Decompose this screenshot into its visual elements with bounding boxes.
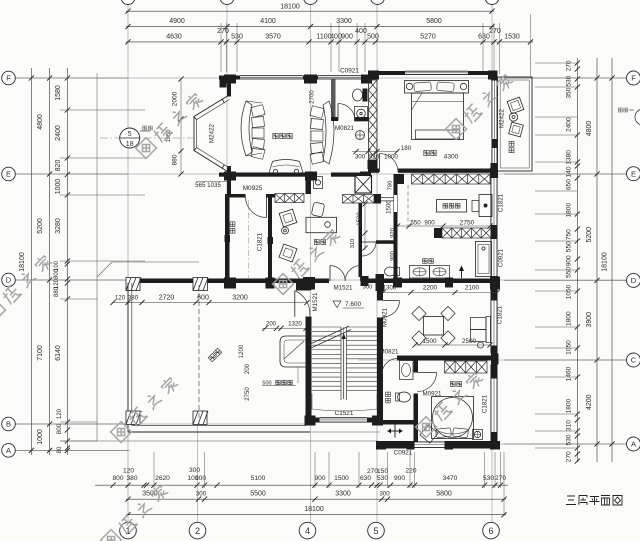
svg-text:530: 530 xyxy=(377,475,388,482)
media sofa right (curved) xyxy=(323,101,334,164)
svg-text:300: 300 xyxy=(363,285,373,291)
column A/6 xyxy=(490,441,500,450)
svg-text:E: E xyxy=(631,169,636,178)
column D/mid-dining xyxy=(445,278,453,288)
svg-text:1800: 1800 xyxy=(566,398,573,413)
label ke wei bath2 xyxy=(386,392,391,397)
bottom dim line row2 xyxy=(126,498,506,500)
svg-text:900: 900 xyxy=(566,255,573,266)
railing note right xyxy=(618,108,622,112)
svg-text:7.600: 7.600 xyxy=(345,301,361,308)
svg-text:C0921: C0921 xyxy=(394,450,413,457)
svg-text:5270: 5270 xyxy=(420,34,436,41)
bedroom2 west wall xyxy=(414,356,419,373)
svg-text:F: F xyxy=(631,74,636,83)
svg-text:900: 900 xyxy=(341,34,353,41)
sink top bath xyxy=(355,107,368,122)
svg-text:800: 800 xyxy=(112,475,123,482)
tatami west wall xyxy=(225,198,230,282)
wall y195 with M0925 door and windows xyxy=(225,194,246,198)
north wall media room + bath xyxy=(219,76,240,80)
svg-text:270: 270 xyxy=(489,28,501,35)
svg-text:80: 80 xyxy=(57,446,63,453)
svg-text:M0921: M0921 xyxy=(423,391,442,398)
svg-text:1500: 1500 xyxy=(334,475,349,482)
top grid bubbles (cut) xyxy=(121,0,135,5)
svg-text:18100: 18100 xyxy=(19,252,26,272)
bedroom2 east window C1821 xyxy=(491,365,498,379)
study ball xyxy=(282,227,289,234)
svg-text:1460: 1460 xyxy=(566,366,573,381)
bath2 basin xyxy=(400,361,414,380)
C0921 window bottom xyxy=(414,442,446,449)
svg-text:M1521: M1521 xyxy=(312,292,319,311)
column stair SW xyxy=(305,416,316,426)
bed2 nightstand xyxy=(473,430,483,440)
svg-text:2750: 2750 xyxy=(245,387,251,401)
svg-text:600: 600 xyxy=(197,295,209,302)
media room south wall xyxy=(219,173,316,177)
svg-text:M0921: M0921 xyxy=(382,307,389,326)
media SW wall stub down xyxy=(227,177,231,194)
svg-text:300: 300 xyxy=(189,467,200,474)
svg-text:1200: 1200 xyxy=(239,344,245,358)
bay window inner line xyxy=(197,100,230,169)
bath south wall with door gap xyxy=(331,117,338,121)
column bedroom1 SW xyxy=(368,160,378,169)
north wall bedroom1 xyxy=(368,71,405,75)
column F/mid xyxy=(304,75,317,84)
svg-text:4630: 4630 xyxy=(166,34,182,41)
left dim line outer 18100 xyxy=(30,68,32,455)
svg-text:1800: 1800 xyxy=(566,311,573,326)
column D/tatamiE xyxy=(266,278,275,289)
svg-text:780: 780 xyxy=(388,181,394,191)
svg-text:1580: 1580 xyxy=(55,85,62,101)
svg-text:200: 200 xyxy=(245,363,251,374)
grid line F horizontal xyxy=(15,77,627,79)
bedroom1 south wall xyxy=(368,169,498,173)
column D/tatamiW xyxy=(224,278,236,289)
railing note at callout xyxy=(143,126,147,130)
svg-text:4300: 4300 xyxy=(444,154,459,161)
bath2 door M0821 leaf+arc xyxy=(381,359,383,376)
svg-text:1800: 1800 xyxy=(566,203,573,218)
bed1 pillows xyxy=(414,82,432,92)
laundry north wall xyxy=(377,420,418,425)
svg-text:550: 550 xyxy=(566,266,573,277)
column A/5 xyxy=(376,441,386,450)
column F/bath xyxy=(361,75,372,84)
svg-text:2700: 2700 xyxy=(310,90,316,104)
small stand in corridor xyxy=(314,177,323,189)
svg-text:300: 300 xyxy=(355,154,366,161)
svg-text:900: 900 xyxy=(424,220,435,227)
stair hall east wall lower xyxy=(377,318,383,422)
grid line 5 vertical xyxy=(376,4,378,522)
column D/door xyxy=(361,276,369,286)
bed1 foot bench xyxy=(416,130,460,139)
closet island xyxy=(437,200,467,213)
grid line 2 vertical (top) xyxy=(226,4,228,196)
stair hall south wall xyxy=(306,418,320,423)
dining chairs (diamonds) xyxy=(412,306,426,320)
stair hall west wall upper stub xyxy=(306,283,312,290)
stair bay lower thin line xyxy=(311,431,380,433)
column bedroom1 NE xyxy=(488,71,498,80)
top extension lines minor xyxy=(220,23,222,72)
hatched column D/2 xyxy=(193,278,208,291)
hatched column D/1 xyxy=(126,278,140,291)
svg-text:880: 880 xyxy=(172,154,179,165)
grid line A horizontal left xyxy=(15,449,130,451)
dining sofa xyxy=(486,317,491,343)
left extension lines horizontal xyxy=(15,77,128,79)
bottom dim line overall 18100 xyxy=(126,514,506,516)
closet dim row xyxy=(398,225,492,227)
media sofa left (curved) xyxy=(241,101,252,156)
svg-text:C0921: C0921 xyxy=(340,68,359,75)
svg-text:300: 300 xyxy=(379,491,390,498)
svg-text:D: D xyxy=(6,276,12,285)
svg-text:2500: 2500 xyxy=(462,338,477,345)
closet west wall xyxy=(394,174,398,283)
dining east window C1821 xyxy=(491,288,498,301)
svg-text:3200: 3200 xyxy=(232,295,248,302)
column closet SW2 xyxy=(434,228,442,238)
svg-text:2000: 2000 xyxy=(172,91,179,106)
double door M1521 right leaf xyxy=(360,266,362,282)
svg-text:2100: 2100 xyxy=(465,285,480,292)
svg-text:4100: 4100 xyxy=(260,18,276,25)
svg-text:D: D xyxy=(631,276,637,285)
bedroom2 label xyxy=(450,382,455,387)
bed1 headboard band xyxy=(405,81,469,94)
svg-text:6140: 6140 xyxy=(55,345,62,361)
svg-text:C1821: C1821 xyxy=(482,394,489,413)
study chair xyxy=(311,202,324,217)
bedroom1 east window xyxy=(492,81,498,140)
bed2 corner diamond pillow xyxy=(420,425,438,443)
bed2 pillows xyxy=(436,428,452,438)
column F/2 xyxy=(224,75,236,84)
svg-text:5500: 5500 xyxy=(250,491,266,498)
svg-text:4: 4 xyxy=(305,526,310,536)
svg-text:C1821: C1821 xyxy=(497,305,504,324)
laundry symbol xyxy=(388,430,403,432)
svg-text:800: 800 xyxy=(56,423,63,434)
east window C0921 mid xyxy=(491,239,498,276)
svg-text:2200: 2200 xyxy=(423,285,438,292)
study top window xband left xyxy=(275,194,304,203)
grid line A horizontal right xyxy=(495,443,627,445)
svg-text:1530: 1530 xyxy=(504,34,520,41)
column bedroom1 NW xyxy=(368,71,379,80)
svg-text:920: 920 xyxy=(369,154,380,161)
svg-text:900: 900 xyxy=(314,475,325,482)
closet bottom xband xyxy=(442,228,491,238)
svg-text:1500: 1500 xyxy=(422,338,437,345)
svg-text:920: 920 xyxy=(390,228,396,238)
svg-text:M0821: M0821 xyxy=(380,349,399,356)
top dim line row3 xyxy=(126,41,533,43)
svg-text:4800: 4800 xyxy=(586,121,593,137)
staircase up arrow xyxy=(343,336,345,399)
svg-text:2400: 2400 xyxy=(55,125,62,141)
column D/5 xyxy=(376,274,385,291)
svg-text:1320: 1320 xyxy=(288,321,302,328)
svg-text:1050: 1050 xyxy=(566,340,573,355)
bed1 lamps xyxy=(406,83,412,89)
bath2 north wall (C line) with M0821 gap xyxy=(377,356,382,361)
grid line 2 vertical (bottom) xyxy=(197,424,199,522)
column A/mid2 xyxy=(445,441,454,450)
svg-text:270: 270 xyxy=(566,60,573,71)
terrace west parapet (double line) xyxy=(127,283,129,432)
bed1 fold corner xyxy=(412,93,423,110)
staircase bottom landing curve xyxy=(312,394,377,412)
bed2 body xyxy=(432,397,474,439)
left dim fine line xyxy=(66,68,68,455)
east wall mid col bottom xyxy=(490,276,498,287)
column C/dining xyxy=(491,346,498,354)
svg-text:300: 300 xyxy=(196,491,207,498)
column closet NW xyxy=(396,174,404,184)
svg-text:750: 750 xyxy=(566,229,573,240)
svg-text:A: A xyxy=(631,440,636,449)
svg-text:18100: 18100 xyxy=(280,3,300,10)
svg-text:2620: 2620 xyxy=(155,475,170,482)
svg-text:630: 630 xyxy=(360,475,371,482)
wall between tatami and study xyxy=(268,198,272,282)
svg-text:270: 270 xyxy=(566,451,573,462)
bath mid basin counter xyxy=(410,266,430,279)
svg-text:150: 150 xyxy=(377,468,388,475)
south wall bath segment xyxy=(331,173,371,177)
bed2 round mattress xyxy=(433,398,473,438)
closet top xband xyxy=(412,174,491,184)
svg-text:5200: 5200 xyxy=(586,227,593,243)
svg-text:18100: 18100 xyxy=(304,506,324,513)
staircase treads right flight xyxy=(347,326,378,328)
C1521 window xyxy=(320,417,368,422)
left outer building extension line xyxy=(96,73,98,277)
svg-text:4900: 4900 xyxy=(169,18,185,25)
watermark 2 xyxy=(446,72,515,139)
stair hall west wall lower xyxy=(306,317,312,422)
hatched column B/2 xyxy=(193,411,207,425)
svg-text:M1521: M1521 xyxy=(334,285,353,292)
east wall mid col middle xyxy=(491,225,498,239)
svg-text:M0925: M0925 xyxy=(243,185,263,192)
closet dashed line xyxy=(407,185,409,227)
svg-text:5: 5 xyxy=(373,526,378,536)
svg-text:C: C xyxy=(631,356,637,365)
watermark 7 xyxy=(416,370,485,437)
column media SW xyxy=(224,172,236,181)
svg-text:530: 530 xyxy=(566,75,573,86)
svg-text:120: 120 xyxy=(57,408,63,419)
callout leader dash-dot line xyxy=(100,137,193,139)
svg-text:5100: 5100 xyxy=(251,475,266,482)
svg-text:C1821: C1821 xyxy=(257,232,264,251)
column bedroom1 SE xyxy=(491,163,498,173)
dining door M0921 leaf+arc xyxy=(383,300,400,302)
column C/6 xyxy=(491,354,499,365)
wc mid north wall xyxy=(376,240,398,244)
watermark 9 (left edge partial) xyxy=(0,253,54,320)
svg-text:270: 270 xyxy=(217,28,229,35)
svg-text:1500: 1500 xyxy=(386,200,393,214)
door M0925 leaf+arc (study from terrace strip) xyxy=(266,197,268,218)
svg-text:120: 120 xyxy=(115,295,126,302)
left dim line col2 xyxy=(49,68,51,455)
column D/6 xyxy=(490,277,500,290)
dining bottom dim row xyxy=(415,344,490,346)
media room west wall lower xyxy=(227,166,231,177)
svg-text:2720: 2720 xyxy=(159,295,175,302)
svg-text:5800: 5800 xyxy=(436,491,452,498)
column tatami/study xyxy=(268,237,274,244)
grid line 6 vertical xyxy=(491,4,493,522)
column study NE xyxy=(374,194,381,204)
label bath2 mid (zhu wei) xyxy=(423,259,428,264)
tatami room label xyxy=(230,222,235,227)
east wall mid col top xyxy=(490,168,498,178)
bottom grid bubbles xyxy=(120,522,137,539)
svg-text:140: 140 xyxy=(566,166,573,177)
watermark 8 xyxy=(273,227,342,294)
toilet top bath xyxy=(353,89,363,101)
bedroom1 door gap in south wall xyxy=(379,168,398,173)
svg-text:2400: 2400 xyxy=(566,117,573,132)
corner mass at terrace door xyxy=(296,283,311,291)
svg-text:B: B xyxy=(6,420,11,429)
svg-text:180: 180 xyxy=(401,145,412,152)
svg-text:880: 880 xyxy=(54,286,60,297)
chimney top-left xyxy=(220,76,227,88)
bedroom2 wardrobe xband xyxy=(445,361,488,373)
svg-text:1380: 1380 xyxy=(566,150,573,165)
balcony outline xyxy=(498,77,533,171)
shower drain symbol xyxy=(356,131,365,140)
balcony door M2422 swing (bedroom1 to balcony) xyxy=(497,103,499,121)
watermark 5 xyxy=(111,375,180,442)
bath partition wall (gray) xyxy=(331,80,336,121)
column tatami W xyxy=(225,235,231,242)
svg-text:2750: 2750 xyxy=(460,220,475,227)
top dim line row2 xyxy=(126,26,494,28)
svg-text:565 1035: 565 1035 xyxy=(195,182,221,189)
svg-text:18100: 18100 xyxy=(602,252,609,272)
dressing stool xyxy=(472,201,479,212)
svg-text:A: A xyxy=(6,446,11,455)
title: san ceng ping mian tu xyxy=(566,496,622,506)
svg-text:M0821: M0821 xyxy=(335,125,354,132)
svg-text:500: 500 xyxy=(367,34,379,41)
grid line C horizontal (right) xyxy=(358,359,627,361)
terrace south parapet xyxy=(128,431,310,433)
right dim line outer 18100 xyxy=(611,58,613,462)
dining top dim row xyxy=(383,292,497,294)
svg-text:E: E xyxy=(6,170,11,179)
column stair SE xyxy=(372,416,383,426)
terrace label xyxy=(208,348,222,362)
column bath S xyxy=(360,172,371,182)
stair hall east wall upper xyxy=(377,283,383,301)
bedroom1 west hatched wall xyxy=(369,80,378,90)
media SE wall stub down xyxy=(306,177,312,194)
study stool 2 xyxy=(279,244,297,262)
study room label xyxy=(314,240,319,245)
grid line 1 vertical xyxy=(127,4,129,522)
lower roof eave outline xyxy=(112,261,199,263)
svg-text:5200: 5200 xyxy=(37,218,44,234)
svg-text:M2422: M2422 xyxy=(499,108,506,127)
bottom dim fine line xyxy=(95,484,508,486)
svg-text:5: 5 xyxy=(128,131,132,138)
svg-text:1000: 1000 xyxy=(55,179,62,195)
svg-text:820: 820 xyxy=(55,160,62,172)
dressing table xyxy=(479,195,492,217)
study stool 1 xyxy=(279,209,297,227)
svg-text:1050: 1050 xyxy=(566,284,573,299)
svg-text:5800: 5800 xyxy=(426,18,442,25)
svg-text:3570: 3570 xyxy=(265,34,281,41)
svg-text:900: 900 xyxy=(394,475,405,482)
svg-text:4200: 4200 xyxy=(586,394,593,410)
svg-text:310: 310 xyxy=(566,420,573,431)
svg-text:550: 550 xyxy=(566,241,573,252)
svg-text:800: 800 xyxy=(54,268,60,279)
grid line D horizontal xyxy=(15,279,627,281)
svg-text:7100: 7100 xyxy=(37,345,44,361)
svg-text:350: 350 xyxy=(566,87,573,98)
hatched column B/1 xyxy=(126,411,140,425)
svg-text:3900: 3900 xyxy=(586,312,593,328)
svg-text:4800: 4800 xyxy=(37,114,44,130)
column media SE xyxy=(305,172,317,181)
svg-text:310: 310 xyxy=(350,239,356,249)
media room west wall upper xyxy=(227,80,231,97)
bedroom1 door leaf+arc xyxy=(379,154,381,173)
svg-text:1500: 1500 xyxy=(357,212,363,226)
bedroom1 east wall: col top xyxy=(491,71,498,81)
detail callout bubble 5/18 xyxy=(120,128,140,148)
svg-text:M2422: M2422 xyxy=(209,123,216,142)
east window C1821 mid xyxy=(491,178,498,225)
svg-text:1300: 1300 xyxy=(383,285,397,292)
right extension lines horizontal xyxy=(504,77,627,79)
corridor north wall (thin) xyxy=(381,197,394,199)
bath mid shower arrow xyxy=(461,268,463,278)
svg-text:3470: 3470 xyxy=(443,475,458,482)
right dim fine line xyxy=(576,58,578,462)
bathtub xyxy=(476,242,492,277)
svg-text:1000: 1000 xyxy=(384,154,398,161)
svg-text:220: 220 xyxy=(405,468,416,475)
bay window (octagon) outer xyxy=(194,96,228,172)
svg-text:200: 200 xyxy=(266,322,277,328)
dining table xyxy=(424,317,444,336)
svg-text:650: 650 xyxy=(566,179,573,190)
bedroom2 door M0921 leaf+arc xyxy=(418,372,437,374)
media TV console xyxy=(268,160,304,177)
bedroom1 east mid block xyxy=(492,139,498,148)
watermark 1 xyxy=(136,91,205,158)
svg-text:18: 18 xyxy=(126,141,134,148)
bottom extension lines minor xyxy=(153,452,155,488)
